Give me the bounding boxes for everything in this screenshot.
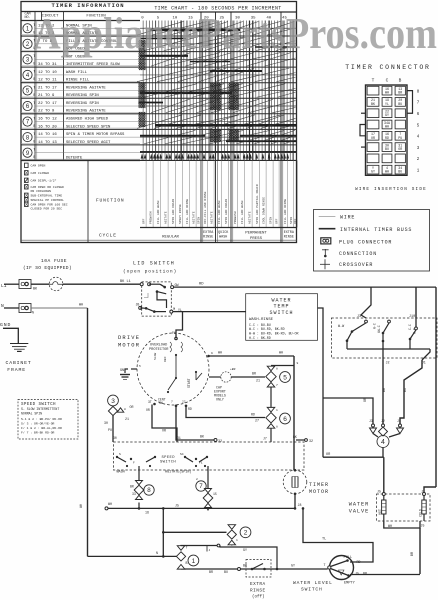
svg-text:VALVE: VALVE — [349, 509, 370, 515]
svg-text:F1: F1 — [172, 331, 176, 335]
svg-text:33: 33 — [132, 492, 136, 496]
svg-text:GY: GY — [371, 170, 375, 174]
svg-text:AGITATE: AGITATE — [193, 211, 196, 224]
svg-text:REGULAR: REGULAR — [162, 236, 179, 240]
svg-text:BR: BR — [209, 570, 213, 574]
svg-text:HOT: HOT — [378, 509, 382, 515]
svg-text:T: T — [33, 116, 35, 120]
svg-text:B: B — [33, 124, 35, 128]
svg-text:(open position): (open position) — [123, 269, 177, 275]
svg-text:2: 2 — [196, 478, 198, 481]
svg-text:SWITCH: SWITCH — [160, 461, 176, 465]
svg-text:T: T — [33, 85, 35, 89]
svg-text:30: 30 — [113, 436, 117, 440]
svg-text:S4: S4 — [180, 453, 184, 456]
svg-text:1: 1 — [236, 539, 238, 542]
svg-text:BK: BK — [200, 435, 204, 439]
svg-text:J10: J10 — [409, 315, 415, 319]
svg-text:EXTRA: EXTRA — [203, 231, 214, 235]
svg-text:S: S — [119, 453, 121, 456]
svg-text:SPIN: SPIN — [270, 217, 273, 224]
svg-text:J2: J2 — [381, 419, 385, 423]
svg-text:SPIN AND DRAIN: SPIN AND DRAIN — [225, 199, 228, 224]
svg-text:REVERSING AGITATE: REVERSING AGITATE — [66, 86, 106, 90]
svg-text:C-C : BU-BU: C-C : BU-BU — [249, 323, 271, 327]
svg-text:16: 16 — [145, 511, 149, 515]
svg-text:WATER LEVEL: WATER LEVEL — [293, 580, 333, 586]
svg-text:FULL: FULL — [344, 556, 353, 560]
svg-text:PLUG CONNECTOR: PLUG CONNECTOR — [339, 239, 392, 245]
svg-text:F/ 1 & 2 : BR-AL,RD-OR: F/ 1 & 2 : BR-AL,RD-OR — [21, 426, 62, 430]
svg-text:J: J — [209, 549, 211, 552]
svg-text:OR: OR — [364, 398, 368, 402]
svg-text:PREWASH: PREWASH — [150, 211, 153, 224]
svg-text:31: 31 — [177, 436, 181, 440]
svg-text:J7: J7 — [263, 437, 267, 441]
svg-text:WIRE: WIRE — [340, 215, 355, 221]
svg-text:(off): (off) — [252, 595, 265, 600]
svg-text:WASH: WASH — [219, 236, 227, 240]
svg-text:T: T — [33, 101, 35, 105]
svg-text:9: 9 — [297, 362, 299, 365]
svg-text:ON COOLDOWN: ON COOLDOWN — [31, 189, 52, 193]
svg-text:BU: BU — [404, 388, 408, 392]
svg-text:M: M — [173, 307, 175, 311]
svg-text:DRIVE: DRIVE — [118, 335, 140, 341]
svg-text:OFF: OFF — [143, 218, 146, 224]
svg-text:8: 8 — [124, 408, 126, 411]
svg-text:RINSE: RINSE — [203, 236, 213, 240]
svg-text:BU: BU — [385, 147, 389, 151]
svg-text:CLOSED FOR 20 SEC: CLOSED FOR 20 SEC — [31, 207, 63, 211]
svg-text:NORMAL SPIN: NORMAL SPIN — [21, 412, 42, 416]
svg-text:16 TO 12: 16 TO 12 — [38, 118, 57, 122]
svg-text:30: 30 — [104, 421, 108, 425]
svg-text:4: 4 — [381, 439, 385, 446]
svg-text:J3: J3 — [357, 315, 361, 319]
svg-text:FILL AND WASH: FILL AND WASH — [157, 200, 160, 224]
svg-text:DETENTE: DETENTE — [66, 156, 83, 160]
svg-text:1: 1 — [276, 409, 278, 412]
svg-text:BU: BU — [398, 102, 402, 106]
svg-text:WH: WH — [218, 351, 222, 355]
svg-text:C-C: C-C — [408, 324, 412, 330]
svg-text:32: 32 — [309, 439, 313, 443]
svg-text:COLD: COLD — [418, 509, 422, 517]
svg-text:REVERSING SPIN: REVERSING SPIN — [66, 94, 99, 98]
svg-text:CONNECTION: CONNECTION — [339, 251, 377, 257]
svg-text:N: N — [156, 551, 158, 555]
svg-text:CROSSOVER: CROSSOVER — [339, 262, 373, 268]
svg-text:PREWASH: PREWASH — [234, 211, 237, 224]
svg-text:RINSE: RINSE — [284, 236, 294, 240]
svg-text:RED: RED — [164, 356, 167, 362]
svg-text:FUNCTION: FUNCTION — [96, 198, 124, 204]
svg-text:SPRAY RINSE: SPRAY RINSE — [179, 204, 182, 224]
svg-text:GY: GY — [385, 113, 389, 117]
svg-text:AGITATE: AGITATE — [211, 211, 214, 224]
svg-text:21 TO 9: 21 TO 9 — [38, 94, 55, 98]
svg-text:B: B — [399, 78, 402, 84]
svg-text:W-W : BU-RD, BK-RD, BU-OR: W-W : BU-RD, BK-RD, BU-OR — [249, 332, 298, 336]
svg-text:FILL AND WASH: FILL AND WASH — [218, 200, 221, 224]
svg-text:J3: J3 — [369, 419, 373, 423]
svg-text:BU: BU — [224, 570, 228, 574]
svg-text:W-W: W-W — [338, 325, 345, 329]
svg-text:B: B — [33, 77, 35, 81]
svg-text:B: B — [33, 139, 35, 143]
svg-text:27: 27 — [255, 419, 259, 423]
svg-text:SPIN: SPIN — [198, 217, 201, 224]
svg-text:S-1 & 2 : BR-PU/ RD-OR: S-1 & 2 : BR-PU/ RD-OR — [21, 417, 62, 421]
svg-text:OFF: OFF — [276, 218, 279, 224]
svg-text:WH: WH — [388, 524, 392, 528]
svg-text:12 TO 11: 12 TO 11 — [38, 79, 57, 83]
svg-text:SPIN AND PARTIAL DRAIN: SPIN AND PARTIAL DRAIN — [256, 184, 259, 224]
svg-text:8: 8 — [147, 487, 151, 494]
svg-text:W-C: W-C — [373, 323, 377, 329]
svg-text:PROTECTOR: PROTECTOR — [149, 348, 169, 352]
svg-text:F1: F1 — [199, 462, 203, 465]
svg-text:5: 5 — [139, 365, 141, 368]
svg-text:WIRE INSERTION SIDE: WIRE INSERTION SIDE — [355, 187, 427, 192]
svg-text:J5: J5 — [175, 504, 179, 508]
svg-text:T: T — [33, 70, 35, 74]
svg-text:INTERMITTENT SPEED SLOW: INTERMITTENT SPEED SLOW — [66, 63, 120, 67]
svg-text:2: 2 — [244, 530, 248, 537]
svg-text:S/ 3 : OR-OR/YE-OR: S/ 3 : OR-OR/YE-OR — [21, 422, 55, 426]
svg-text:AGITATE: AGITATE — [249, 211, 252, 224]
svg-text:BR: BR — [243, 564, 247, 568]
svg-text:OFF-FILL AND RINSE: OFF-FILL AND RINSE — [204, 191, 207, 224]
svg-text:CABINET: CABINET — [6, 360, 32, 366]
svg-text:RD: RD — [199, 283, 204, 287]
svg-text:BK L1: BK L1 — [120, 280, 131, 284]
svg-text:OR: OR — [146, 408, 150, 412]
svg-text:WH: WH — [385, 124, 389, 128]
svg-text:PRESS: PRESS — [250, 237, 263, 241]
svg-text:ONLY: ONLY — [216, 398, 224, 402]
svg-text:YL: YL — [385, 102, 389, 106]
svg-text:W-C : BU-RD, BK-RD: W-C : BU-RD, BK-RD — [249, 327, 285, 331]
svg-text:B: B — [186, 561, 188, 565]
svg-text:NO.: NO. — [24, 16, 30, 20]
svg-text:T: T — [372, 78, 375, 84]
svg-text:AppliancePartsPros.com: AppliancePartsPros.com — [33, 9, 437, 58]
svg-text:ASSURED HIGH SPEED: ASSURED HIGH SPEED — [66, 118, 109, 122]
svg-text:SPEED: SPEED — [162, 456, 176, 460]
svg-text:J5: J5 — [421, 524, 425, 528]
svg-text:6: 6 — [283, 416, 287, 423]
svg-text:GY: GY — [291, 564, 295, 568]
svg-text:WASH: WASH — [117, 471, 125, 475]
svg-text:N: N — [32, 311, 34, 315]
svg-text:WH: WH — [385, 91, 389, 95]
svg-text:14 TO 13: 14 TO 13 — [38, 141, 57, 145]
svg-text:BR: BR — [130, 485, 134, 489]
svg-text:12 TO 10: 12 TO 10 — [38, 71, 57, 75]
svg-text:REVERSING AGITATE: REVERSING AGITATE — [66, 110, 106, 114]
svg-text:H-C : BK-RD: H-C : BK-RD — [249, 336, 271, 340]
svg-text:J2: J2 — [386, 362, 390, 366]
svg-text:14 TO 16: 14 TO 16 — [38, 133, 57, 137]
svg-text:EMPTY: EMPTY — [344, 582, 356, 586]
svg-text:F/ 7 : BR-BK RD-OR: F/ 7 : BR-BK RD-OR — [21, 431, 55, 435]
svg-text:WH: WH — [279, 351, 283, 355]
svg-text:SW: SW — [159, 401, 163, 405]
svg-text:WASH-RINSE: WASH-RINSE — [249, 318, 274, 322]
svg-text:3T: 3T — [148, 400, 152, 404]
svg-text:F: F — [133, 462, 135, 465]
svg-text:OFF: OFF — [294, 218, 297, 224]
svg-text:SWITCH: SWITCH — [301, 587, 323, 593]
svg-text:BR: BR — [383, 388, 387, 392]
svg-text:PU: PU — [108, 428, 112, 432]
svg-text:21 TO 17: 21 TO 17 — [38, 86, 57, 90]
svg-text:1: 1 — [192, 558, 196, 565]
svg-text:FILL AND WASH: FILL AND WASH — [241, 200, 244, 224]
svg-text:WW-C: WW-C — [377, 325, 381, 333]
svg-text:OR: OR — [162, 429, 166, 433]
svg-text:SELECTED SPEED SPIN: SELECTED SPEED SPIN — [66, 125, 111, 129]
svg-text:21: 21 — [256, 379, 260, 383]
svg-text:J8: J8 — [298, 503, 302, 507]
svg-text:CAM DISPL-1/2": CAM DISPL-1/2" — [31, 179, 57, 183]
svg-text:QUICK: QUICK — [218, 231, 229, 235]
svg-text:BU: BU — [398, 170, 402, 174]
svg-text:JB: JB — [136, 303, 140, 307]
svg-text:22: 22 — [182, 401, 186, 404]
svg-text:N: N — [1, 303, 4, 309]
svg-text:B: B — [33, 93, 35, 97]
svg-text:TIMER CONNECTOR: TIMER CONNECTOR — [345, 64, 431, 71]
svg-text:TIMER: TIMER — [309, 482, 329, 488]
svg-text:TEMP: TEMP — [273, 304, 289, 310]
svg-text:OR: OR — [130, 405, 134, 409]
svg-text:CAM OPEN: CAM OPEN — [31, 164, 46, 168]
svg-text:FRAME: FRAME — [7, 367, 26, 373]
svg-text:SWITCH: SWITCH — [269, 310, 293, 316]
svg-text:3: 3 — [111, 398, 115, 405]
svg-text:SPIN AND DRAIN: SPIN AND DRAIN — [172, 199, 175, 224]
svg-text:TIMER INFORMATION: TIMER INFORMATION — [51, 2, 124, 9]
svg-text:B: B — [33, 155, 35, 159]
svg-text:WH: WH — [80, 504, 84, 508]
svg-text:RD: RD — [385, 136, 389, 140]
svg-text:BR: BR — [411, 552, 415, 556]
svg-text:SUB-INTERVAL TIME: SUB-INTERVAL TIME — [31, 194, 63, 198]
svg-text:SLOW: SLOW — [154, 353, 157, 360]
svg-text:22 TO 9: 22 TO 9 — [38, 110, 55, 114]
svg-text:OR: OR — [398, 147, 402, 151]
svg-text:WH: WH — [79, 304, 83, 308]
svg-text:BR: BR — [398, 91, 402, 95]
svg-text:BK: BK — [371, 102, 375, 106]
svg-text:WH: WH — [108, 502, 112, 506]
svg-text:PU: PU — [398, 136, 402, 140]
svg-text:J1: J1 — [397, 419, 401, 423]
svg-text:5: 5 — [283, 374, 287, 381]
svg-text:CYCLE: CYCLE — [99, 233, 117, 239]
svg-text:CAM CLOSED: CAM CLOSED — [31, 171, 50, 175]
svg-text:T: T — [33, 132, 35, 136]
svg-text:MOTOR: MOTOR — [118, 343, 140, 349]
svg-text:SPIN & TIMER MOTOR BYPASS: SPIN & TIMER MOTOR BYPASS — [66, 133, 125, 137]
svg-text:GND: GND — [0, 322, 11, 328]
svg-text:FILL AND RINSE: FILL AND RINSE — [186, 199, 189, 224]
svg-text:OVERLOAD: OVERLOAD — [150, 344, 167, 348]
svg-text:+BR: +BR — [230, 368, 236, 371]
svg-text:INTERNAL TIMER BUSS: INTERNAL TIMER BUSS — [340, 227, 412, 233]
svg-text:BK: BK — [293, 435, 297, 439]
svg-text:PERMANENT: PERMANENT — [245, 232, 267, 236]
svg-text:WASH FILL: WASH FILL — [66, 71, 88, 75]
svg-text:8: 8 — [276, 368, 278, 371]
svg-text:B: B — [33, 62, 35, 66]
svg-text:OR: OR — [371, 136, 375, 140]
svg-text:(IF SO EQUIPPED): (IF SO EQUIPPED) — [23, 265, 72, 271]
svg-text:WATER: WATER — [349, 502, 370, 508]
svg-text:AGITATE: AGITATE — [165, 211, 168, 224]
svg-text:16 TO 20: 16 TO 20 — [38, 125, 57, 129]
svg-text:9: 9 — [211, 352, 213, 355]
svg-text:LID SWITCH: LID SWITCH — [133, 261, 175, 267]
svg-text:GY: GY — [243, 548, 247, 552]
svg-text:AGITATE(SPIN): AGITATE(SPIN) — [165, 470, 191, 475]
svg-text:WH: WH — [385, 170, 389, 174]
svg-text:RINSE FILL: RINSE FILL — [66, 79, 90, 83]
svg-text:7: 7 — [199, 483, 203, 490]
svg-text:EXTRA: EXTRA — [250, 582, 266, 587]
svg-text:22 TO 17: 22 TO 17 — [38, 102, 57, 106]
svg-text:34 TO 31: 34 TO 31 — [38, 63, 57, 67]
svg-text:COOL DOWN RINSE: COOL DOWN RINSE — [263, 197, 266, 224]
svg-text:J5: J5 — [377, 490, 381, 494]
svg-text:RD: RD — [251, 413, 255, 417]
svg-text:SPIN: SPIN — [290, 217, 293, 224]
svg-text:7: 7 — [276, 384, 278, 387]
svg-text:RD: RD — [188, 407, 192, 411]
svg-text:C: C — [386, 78, 389, 84]
svg-text:FILL AND RINSE: FILL AND RINSE — [284, 199, 287, 224]
svg-text:T: T — [324, 563, 326, 567]
svg-text:15: 15 — [213, 492, 217, 496]
svg-text:8: 8 — [276, 426, 278, 429]
svg-text:TL: TL — [322, 538, 326, 542]
svg-text:T: T — [33, 147, 35, 151]
svg-text:RINSE: RINSE — [250, 589, 266, 594]
svg-text:7: 7 — [171, 401, 173, 404]
svg-text:SPECIAL PP CONTROL: SPECIAL PP CONTROL — [31, 198, 65, 202]
svg-text:RD: RD — [357, 560, 361, 564]
svg-text:SELECTED SPEED AGIT: SELECTED SPEED AGIT — [66, 141, 111, 145]
svg-text:BR: BR — [252, 372, 256, 376]
svg-text:GN: GN — [120, 369, 124, 373]
svg-text:10A FUSE: 10A FUSE — [41, 258, 67, 264]
svg-text:START: START — [187, 378, 191, 388]
svg-text:21: 21 — [125, 417, 129, 421]
svg-text:B: B — [33, 108, 35, 112]
svg-text:REVERSING SPIN: REVERSING SPIN — [66, 102, 99, 106]
svg-text:EXTRA: EXTRA — [284, 231, 295, 235]
svg-text:MOTOR: MOTOR — [309, 489, 329, 495]
svg-text:S- SLOW INTERMITTENT: S- SLOW INTERMITTENT — [21, 407, 59, 411]
